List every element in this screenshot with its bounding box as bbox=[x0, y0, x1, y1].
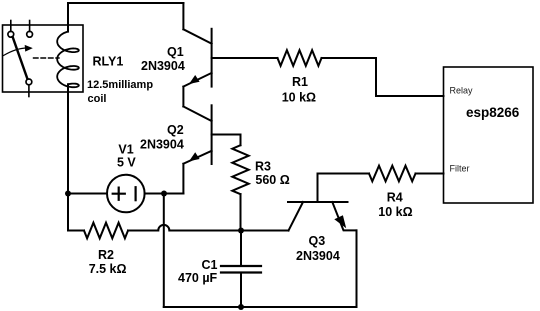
wire left rail to V1 bbox=[68, 193, 107, 195]
relay actuation arrow bbox=[4, 48, 29, 56]
resistor R1 bbox=[278, 50, 322, 66]
wire Q1 emitter to Q2 collector bbox=[182, 87, 184, 107]
wire R4 to esp8266 Filter pin bbox=[416, 173, 444, 175]
transistor Q1 emitter bbox=[183, 73, 211, 87]
wire top rail bbox=[68, 2, 183, 4]
wire R2 to hop bbox=[128, 230, 158, 232]
svg-text:Relay: Relay bbox=[450, 86, 474, 96]
relay switch contact circle bottom bbox=[26, 79, 32, 85]
wire Q2 emitter down to V1 node bbox=[164, 164, 183, 194]
svg-text:Q1: Q1 bbox=[167, 45, 184, 59]
wire hop to R3/C1 node to Q3 collector bbox=[169, 230, 288, 232]
Q1 emitter arrowhead bbox=[189, 75, 200, 84]
svg-text:R1: R1 bbox=[292, 75, 308, 89]
transistor Q1 collector bbox=[183, 29, 211, 43]
wire right vertical from top rail to Q1 collector bbox=[182, 3, 184, 29]
wire Q3 base to R4 bbox=[318, 173, 370, 175]
relay coil L bbox=[57, 32, 79, 88]
wire Q3 emitter down to bottom rail bbox=[356, 230, 358, 307]
junction node C1 bottom bbox=[238, 304, 244, 310]
svg-text:470 µF: 470 µF bbox=[178, 271, 218, 285]
relay switch terminal stub top-left bbox=[10, 21, 12, 32]
svg-text:560 Ω: 560 Ω bbox=[255, 173, 289, 187]
svg-text:Filter: Filter bbox=[450, 164, 470, 174]
transistor Q3 base bar bbox=[288, 201, 348, 203]
svg-text:2N3904: 2N3904 bbox=[140, 138, 184, 152]
svg-text:V1: V1 bbox=[118, 143, 133, 157]
svg-text:C1: C1 bbox=[202, 258, 218, 272]
relay switch contact circle top-right bbox=[27, 31, 33, 37]
bottom rail bbox=[164, 306, 357, 308]
svg-text:Q2: Q2 bbox=[167, 123, 184, 137]
junction node at V1 right bbox=[161, 191, 167, 197]
svg-text:R3: R3 bbox=[255, 160, 271, 174]
relay switch terminal stub bottom bbox=[28, 85, 30, 97]
wire left rail upper bbox=[67, 3, 69, 32]
wire R3 bottom to rail bbox=[240, 194, 242, 230]
svg-text:esp8266: esp8266 bbox=[466, 105, 520, 120]
resistor R3 bbox=[232, 145, 248, 194]
transistor Q3 collector bbox=[289, 202, 304, 231]
transistor Q2 emitter bbox=[183, 151, 211, 164]
wire Q2 base to R3 bbox=[212, 135, 241, 146]
V1 plus sign bbox=[113, 188, 125, 200]
voltage source V1 circle bbox=[107, 175, 145, 213]
capacitor C1 bottom lead bbox=[240, 274, 242, 308]
capacitor C1 bottom plate bbox=[221, 271, 261, 273]
svg-text:coil: coil bbox=[88, 93, 107, 105]
capacitor C1 top lead bbox=[240, 231, 242, 266]
svg-text:2N3904: 2N3904 bbox=[141, 59, 185, 73]
capacitor C1 top plate bbox=[221, 265, 261, 267]
resistor R4 bbox=[369, 166, 416, 182]
transistor Q3 emitter bbox=[332, 202, 356, 230]
transistor Q3 base wire up bbox=[317, 174, 319, 203]
svg-text:R4: R4 bbox=[387, 191, 403, 205]
relay dashed link to coil bbox=[34, 57, 60, 59]
svg-text:Q3: Q3 bbox=[309, 234, 326, 248]
resistor R2 bbox=[84, 223, 128, 239]
svg-text:R2: R2 bbox=[98, 248, 114, 262]
wire V1 to node bbox=[145, 193, 184, 195]
V1 minus bar bbox=[135, 187, 137, 200]
wire node down to bottom rail bbox=[163, 194, 165, 308]
esp8266 box bbox=[444, 67, 534, 203]
svg-text:RLY1: RLY1 bbox=[93, 55, 124, 69]
junction node R3/C1 on rail bbox=[238, 228, 244, 234]
svg-text:10 kΩ: 10 kΩ bbox=[282, 91, 316, 105]
relay RLY1 box bbox=[3, 25, 84, 92]
junction node at left rail / V1 bbox=[65, 191, 71, 197]
svg-text:2N3904: 2N3904 bbox=[296, 249, 340, 263]
transistor Q2 base bar bbox=[211, 105, 213, 164]
Q2 emitter arrowhead bbox=[189, 152, 200, 161]
svg-text:12.5milliamp: 12.5milliamp bbox=[87, 79, 153, 91]
relay switch blade bbox=[13, 37, 28, 79]
wire left rail lower (coil bottom to R2 corner) bbox=[67, 84, 69, 230]
wire R1 to esp8266 Relay pin bbox=[322, 58, 444, 96]
transistor Q1 base bar bbox=[211, 29, 213, 87]
svg-text:10 kΩ: 10 kΩ bbox=[378, 205, 412, 219]
wire R2 rail left segment bbox=[68, 230, 84, 232]
svg-text:5 V: 5 V bbox=[117, 156, 136, 170]
wire hop over vertical bbox=[158, 225, 169, 231]
svg-text:7.5 kΩ: 7.5 kΩ bbox=[89, 262, 127, 276]
wire Q1 base to R1 bbox=[212, 57, 278, 59]
relay switch contact circle top-left bbox=[8, 31, 14, 37]
Q3 emitter arrowhead bbox=[334, 215, 346, 228]
relay switch terminal stub top-right bbox=[29, 21, 31, 32]
relay arrow head bbox=[25, 45, 33, 52]
transistor Q2 collector bbox=[183, 107, 211, 122]
